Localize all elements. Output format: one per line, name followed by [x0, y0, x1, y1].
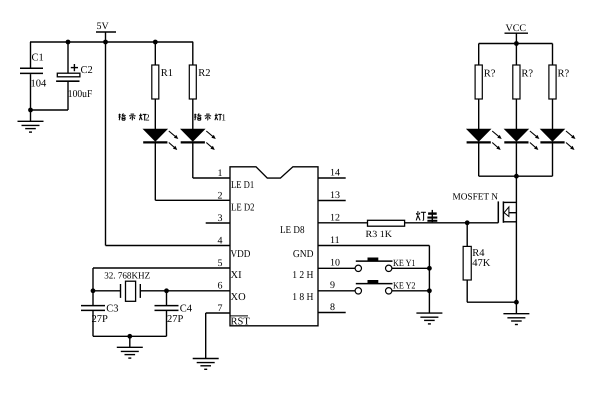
svg-text:100uF: 100uF — [68, 89, 93, 100]
svg-text:32. 768KHZ: 32. 768KHZ — [104, 272, 150, 282]
svg-text:R?: R? — [484, 69, 496, 80]
svg-text:MOSFET N: MOSFET N — [453, 192, 499, 202]
svg-text:LE D1: LE D1 — [231, 180, 254, 191]
svg-text:11: 11 — [330, 235, 340, 246]
svg-text:9: 9 — [330, 280, 335, 291]
svg-text:27P: 27P — [167, 314, 184, 325]
svg-text:LE D8: LE D8 — [280, 225, 305, 236]
svg-text:1 2 H: 1 2 H — [292, 270, 314, 281]
svg-text:6: 6 — [218, 281, 223, 292]
svg-text:C4: C4 — [180, 304, 193, 315]
svg-text:2: 2 — [145, 114, 150, 124]
svg-text:GND: GND — [293, 249, 314, 260]
svg-text:10: 10 — [330, 258, 340, 269]
svg-text:C1: C1 — [32, 53, 44, 64]
svg-text:VDD: VDD — [231, 249, 251, 260]
svg-text:104: 104 — [31, 79, 48, 90]
svg-text:C3: C3 — [106, 304, 118, 315]
svg-text:14: 14 — [330, 168, 340, 179]
svg-text:47K: 47K — [472, 258, 491, 269]
svg-text:1: 1 — [218, 168, 223, 179]
svg-text:XO: XO — [231, 292, 247, 303]
svg-text:R?: R? — [558, 69, 570, 80]
svg-text:XI: XI — [231, 270, 243, 281]
svg-text:R2: R2 — [198, 68, 210, 79]
svg-text:R?: R? — [521, 69, 533, 80]
svg-text:LE D2: LE D2 — [231, 203, 255, 214]
svg-text:R1: R1 — [161, 68, 173, 79]
svg-text:1: 1 — [221, 114, 226, 124]
svg-text:27P: 27P — [92, 314, 109, 325]
svg-text:RST: RST — [231, 317, 251, 328]
svg-text:1 8 H: 1 8 H — [292, 292, 314, 303]
svg-text:KE Y1: KE Y1 — [393, 259, 416, 269]
svg-text:12: 12 — [330, 212, 340, 223]
svg-text:R3 1K: R3 1K — [366, 230, 393, 240]
svg-text:8: 8 — [330, 302, 335, 313]
svg-text:VCC: VCC — [506, 23, 527, 34]
svg-text:2: 2 — [218, 190, 223, 201]
svg-text:KE Y2: KE Y2 — [393, 281, 416, 291]
svg-text:5V: 5V — [97, 21, 110, 32]
svg-text:C2: C2 — [81, 65, 93, 76]
svg-text:13: 13 — [330, 190, 340, 201]
